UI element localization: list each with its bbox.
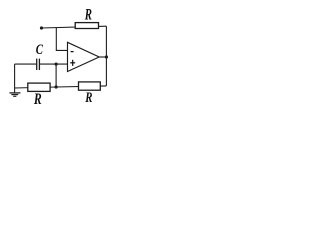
svg-text:C: C xyxy=(36,42,44,58)
svg-text:R: R xyxy=(84,7,92,24)
svg-text:R: R xyxy=(33,91,42,108)
svg-text:R: R xyxy=(84,90,92,106)
